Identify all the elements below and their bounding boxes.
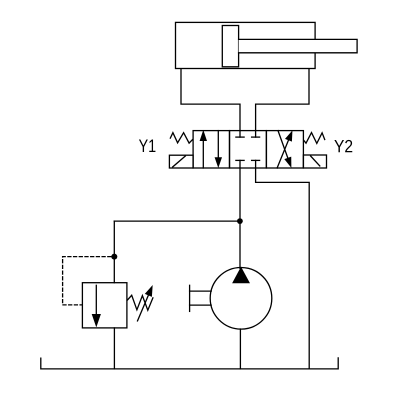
tank line bbox=[41, 358, 338, 369]
spring right of valve bbox=[304, 133, 325, 144]
wire cylinder left port to valve port A bbox=[181, 69, 240, 137]
valve right box crossed arrow A-to-T bbox=[278, 131, 288, 159]
relief valve adjustable spring bbox=[127, 295, 153, 310]
node junction dot at pilot tap bbox=[111, 254, 117, 260]
valve center box blocked port T T-bar bbox=[252, 159, 260, 161]
wire branch down to relief valve top bbox=[113, 221, 115, 283]
valve left box up arrow bbox=[202, 140, 204, 168]
solenoid Y1 diagonal bbox=[173, 156, 186, 167]
valve right box crossed arrow P-to-B bbox=[277, 140, 289, 168]
spring left of valve bbox=[170, 133, 192, 143]
cylinder body bbox=[176, 22, 316, 68]
pump drive shaft bbox=[189, 285, 191, 311]
solenoid Y2 box bbox=[303, 155, 326, 168]
relief valve adjustment arrow bbox=[138, 295, 149, 321]
pump P1 circle bbox=[210, 268, 272, 330]
node junction dot at branch bbox=[237, 218, 243, 224]
cylinder rod bbox=[239, 39, 358, 52]
valve center box blocked port A T-bar bbox=[236, 136, 244, 138]
relief valve pilot dashed line bbox=[63, 257, 111, 305]
relief valve flow arrow bbox=[95, 285, 97, 315]
wire valve port T down right to tank bbox=[256, 160, 310, 369]
valve U1 body left box bbox=[193, 131, 229, 168]
wire valve port P down to pump bbox=[239, 160, 241, 268]
cylinder piston bbox=[222, 26, 238, 67]
relief valve body bbox=[82, 283, 127, 328]
valve left box down arrow bbox=[217, 131, 219, 159]
solenoid Y2 diagonal bbox=[311, 156, 320, 166]
wire pump bottom to tank bbox=[239, 329, 241, 369]
valve U1 body center box bbox=[230, 131, 267, 168]
pump P1 flow triangle bbox=[233, 268, 249, 283]
label Y2 bbox=[334, 140, 352, 152]
wire relief valve bottom to tank bbox=[113, 328, 115, 369]
wire branch to relief valve bbox=[114, 220, 240, 222]
wire cylinder right port to valve port B bbox=[256, 69, 309, 137]
solenoid Y1 box bbox=[169, 155, 193, 168]
label Y1 bbox=[139, 140, 156, 153]
valve U1 body right box bbox=[266, 131, 303, 168]
valve center box blocked port B T-bar bbox=[252, 136, 260, 138]
valve center box blocked port P T-bar bbox=[236, 159, 244, 161]
